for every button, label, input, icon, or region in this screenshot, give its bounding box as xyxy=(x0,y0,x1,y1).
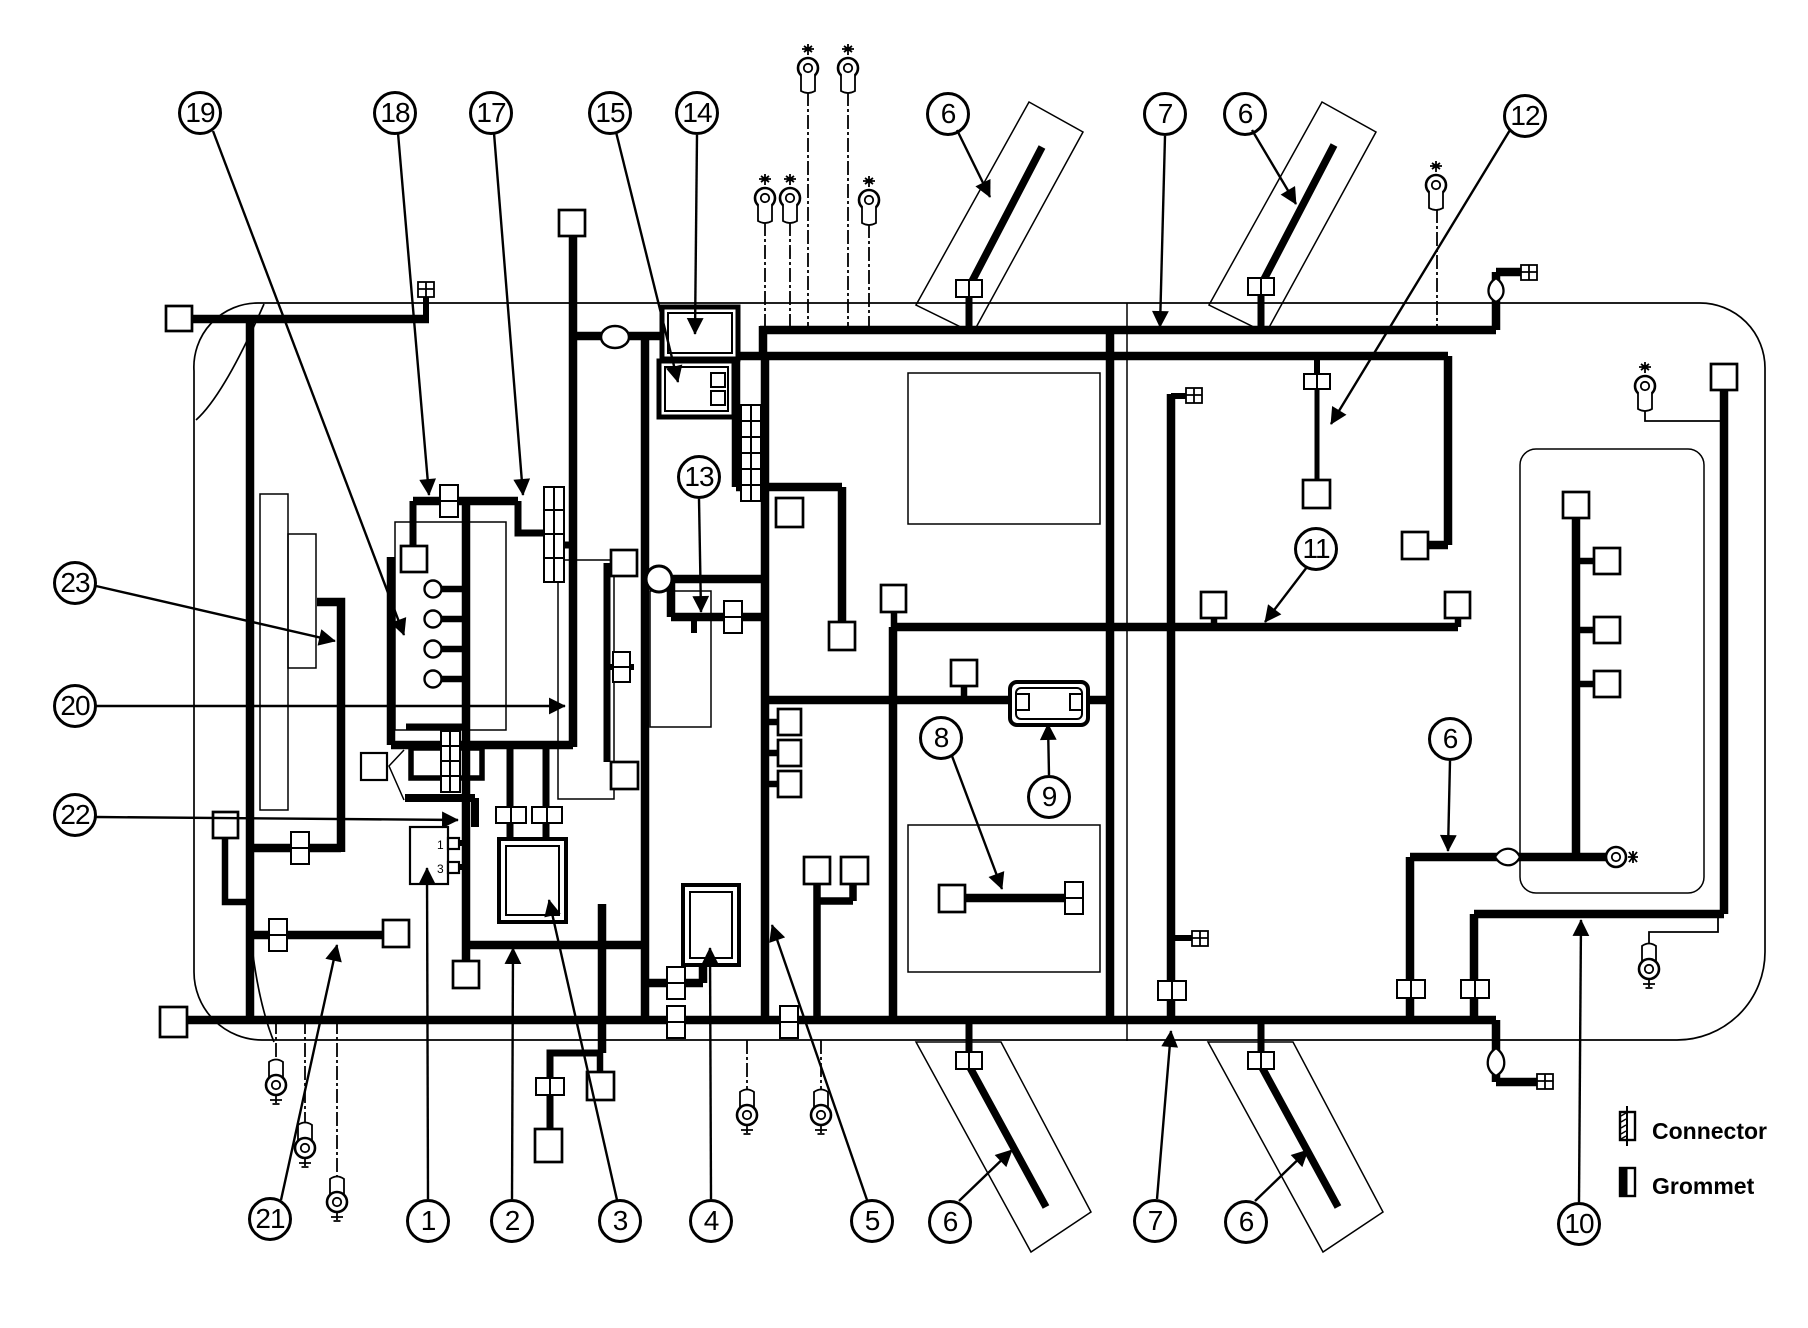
grommet pair on 23 wire xyxy=(291,832,309,848)
svg-text:4: 4 xyxy=(704,1205,719,1236)
callout 9 (15) xyxy=(1029,777,1070,818)
ground terminal G3 xyxy=(327,1177,347,1222)
wire top right exit xyxy=(1496,272,1523,330)
svg-text:19: 19 xyxy=(185,97,215,128)
connector ladder on fuse jog xyxy=(544,487,564,582)
roof strip outline bottom-right (item 6) xyxy=(1208,1042,1383,1252)
connector item 1 lower end xyxy=(453,961,479,988)
ring terminal T4 xyxy=(780,174,800,223)
grommet pair on fuse top row xyxy=(440,485,458,501)
connector on 11 line right xyxy=(1445,592,1470,618)
lead ring terminal F xyxy=(1436,209,1438,330)
wire top-left feed xyxy=(192,315,429,324)
leader 22 xyxy=(96,817,458,820)
grommet pair on floor line B xyxy=(780,1006,798,1022)
wire twin connector drop left xyxy=(813,884,821,1020)
box item 4 xyxy=(683,885,739,965)
connector mid-left upper xyxy=(611,550,637,576)
grommet pair rear drop A xyxy=(1397,980,1411,998)
svg-text:2: 2 xyxy=(505,1205,520,1236)
wire ladder to trunk xyxy=(562,542,573,549)
leader 6a xyxy=(957,130,990,197)
connector fuse block left xyxy=(401,546,427,572)
wire item 12 pigtail xyxy=(1314,356,1320,374)
wire vertical link with two connectors xyxy=(604,563,611,762)
svg-text:3: 3 xyxy=(437,862,444,876)
connector left floor end xyxy=(160,1007,187,1037)
grommet pair strip top-left xyxy=(956,280,969,297)
wire strip stub bottom-right xyxy=(1258,1018,1265,1052)
callout 10 (26) xyxy=(1559,1204,1600,1245)
grommet teardrop top-right xyxy=(1488,278,1503,302)
callout 6 (23) xyxy=(930,1202,971,1243)
wire stub connector to 11 line right xyxy=(1455,616,1462,627)
svg-text:14: 14 xyxy=(682,97,712,128)
wire stub connector to 11 line mid xyxy=(1211,618,1218,627)
wire fuse stubs to bulbs xyxy=(441,589,466,679)
strip conductor bottom-right xyxy=(1259,1062,1338,1207)
connector beside bracket xyxy=(361,753,387,780)
callout 7 (24) xyxy=(1135,1201,1176,1242)
wire fuse block left border xyxy=(387,557,396,745)
callout 20 (10) xyxy=(55,686,96,727)
lead ring terminal E xyxy=(868,224,870,330)
connector on 11 line left xyxy=(881,585,906,612)
leader 9 xyxy=(1048,724,1049,775)
angle bracket marker xyxy=(389,750,404,800)
svg-text:Grommet: Grommet xyxy=(1652,1173,1755,1199)
wire stub trunk to small grommet lower xyxy=(1171,935,1192,941)
grommet pair on 21 wire xyxy=(269,919,287,935)
grommet pair on 8 wire xyxy=(1065,882,1083,898)
callout 13 (12) xyxy=(679,457,720,498)
wire stubs three connectors on center trunk xyxy=(765,722,778,784)
leader 6b xyxy=(1252,130,1296,204)
svg-text:12: 12 xyxy=(1510,100,1540,131)
wire fuse block top row xyxy=(413,497,518,506)
ring terminal T7 xyxy=(1635,362,1655,411)
leader 10 xyxy=(1579,920,1581,1202)
cowl arc top-left xyxy=(196,304,264,420)
right interior rounded panel xyxy=(1520,449,1704,893)
leader 12 xyxy=(1331,130,1510,424)
lead ground left 2 xyxy=(304,1020,306,1125)
leader 19 xyxy=(213,131,404,635)
grommet square top-right exit xyxy=(1521,265,1537,280)
connector ladder on box column xyxy=(741,405,761,501)
roof strip outline top-left (item 6) xyxy=(916,102,1083,333)
lead ground mid 2 xyxy=(820,1040,822,1092)
wire drop x602 xyxy=(598,904,607,1053)
grommet pair on item4 feed xyxy=(667,967,685,983)
ground terminal G2 xyxy=(295,1123,315,1168)
wire jog to lower connector xyxy=(550,1053,602,1131)
lead ring terminal C xyxy=(764,222,766,330)
wire rear long column xyxy=(1720,390,1729,914)
callout 12 (8) xyxy=(1505,96,1546,137)
connector trunk stack 3 xyxy=(778,771,801,797)
leader 15 xyxy=(616,132,678,382)
grommet pair on mid-left stub xyxy=(613,652,630,667)
svg-text:6: 6 xyxy=(1239,1206,1254,1237)
svg-text:3: 3 xyxy=(613,1205,628,1236)
connector on 11 line mid xyxy=(1201,592,1226,618)
grommet pair on item3 drop right xyxy=(532,807,547,823)
svg-text:6: 6 xyxy=(1443,723,1458,754)
callout 6 (7) xyxy=(1225,94,1266,135)
wire left main trunk xyxy=(246,315,255,1020)
callout 11 (13) xyxy=(1296,529,1337,570)
leader 6e xyxy=(1255,1150,1308,1201)
leader 6d xyxy=(959,1150,1012,1201)
grommet oval on cowl harness xyxy=(601,326,629,348)
connector above 9 line xyxy=(951,660,977,686)
wire stub to grommet top-left xyxy=(423,296,429,319)
callout 14 (4) xyxy=(677,93,718,134)
grommet pair rear trunk xyxy=(1158,981,1172,1000)
strip conductor top-left xyxy=(968,147,1042,289)
connector item 21 end xyxy=(383,920,409,947)
cowl arc bottom-left xyxy=(252,947,274,1042)
wire fuse block jog to ladder xyxy=(518,501,548,533)
callout 5 (22) xyxy=(852,1201,893,1242)
lead ring terminal rear top xyxy=(1645,408,1721,421)
wire bottom right exit xyxy=(1496,1020,1537,1082)
wire second top harness row xyxy=(736,352,1448,361)
strip conductor bottom-left xyxy=(967,1062,1046,1207)
wire right quarter drop xyxy=(1406,857,1415,1020)
wire drop to item 3 box right xyxy=(543,745,550,839)
svg-text:1: 1 xyxy=(421,1205,436,1236)
legend connector symbol xyxy=(1620,1106,1635,1146)
wire stub trunk to grommet xyxy=(1171,393,1186,399)
wire item 1 tab stubs xyxy=(451,843,466,867)
connector item 8 left xyxy=(939,885,965,912)
callout 21 (17) xyxy=(250,1199,291,1240)
wire trunk center-right xyxy=(1106,328,1115,1020)
wire stub connector to 11 line left xyxy=(891,612,898,627)
leader 13 xyxy=(699,499,701,612)
svg-text:15: 15 xyxy=(595,97,625,128)
wire fuse block inner column xyxy=(462,501,471,961)
connector tailgate chain 3 xyxy=(1594,671,1620,697)
wire item 13 down link xyxy=(667,583,676,617)
grommet pair item 12 top xyxy=(1304,374,1317,389)
ground terminal G1 xyxy=(266,1060,286,1105)
grommet pair rear drop B xyxy=(1461,980,1475,998)
svg-text:6: 6 xyxy=(941,98,956,129)
wire riser joining top harness rows xyxy=(759,326,768,356)
wire 14-15 box column xyxy=(732,307,741,487)
svg-text:18: 18 xyxy=(380,97,410,128)
ring terminal T6 xyxy=(1426,161,1446,210)
callout 6 (16) xyxy=(1430,719,1471,760)
grommet square bottom-right exit xyxy=(1537,1074,1553,1089)
ring terminal T2 xyxy=(838,44,858,93)
svg-text:7: 7 xyxy=(1158,98,1173,129)
ground terminal G5 xyxy=(811,1090,831,1135)
connector left front feed xyxy=(166,306,192,331)
wire fuse block bottom border xyxy=(391,741,573,750)
grommet square on rear trunk top xyxy=(1186,388,1202,403)
box item 3 xyxy=(499,839,566,922)
connector trunk stack 1 xyxy=(778,709,801,735)
roof strip outline bottom-left (item 6) xyxy=(916,1042,1091,1252)
svg-text:Connector: Connector xyxy=(1652,1118,1767,1144)
connector right rear branch end xyxy=(1402,532,1428,559)
lead ring terminal D xyxy=(789,222,791,330)
box item 14 xyxy=(662,307,738,359)
callout 18 (1) xyxy=(375,93,416,134)
lead ring terminal B xyxy=(847,92,849,330)
wire strip stub bottom-left xyxy=(966,1018,973,1052)
thin rect item 13 xyxy=(650,591,711,727)
connector trunk stack 2 xyxy=(778,740,801,766)
connector below floor right xyxy=(587,1072,614,1100)
leader 8 xyxy=(952,756,1002,889)
lead ground right rear xyxy=(1649,916,1718,944)
svg-text:13: 13 xyxy=(684,461,714,492)
svg-text:11: 11 xyxy=(1302,533,1329,564)
wire item 9 branch xyxy=(765,696,1110,705)
grommet pair on 13 wire xyxy=(724,601,742,617)
fuse bulb 1 xyxy=(425,581,442,598)
ground terminal G4 xyxy=(737,1090,757,1135)
svg-text:6: 6 xyxy=(943,1206,958,1237)
leader 3 xyxy=(549,900,617,1200)
leader 7b xyxy=(1157,1031,1171,1199)
wire branch y945 xyxy=(464,941,643,950)
callout 23 (9) xyxy=(55,563,96,604)
svg-text:22: 22 xyxy=(60,799,90,830)
svg-text:5: 5 xyxy=(865,1205,880,1236)
lead ring terminal A xyxy=(807,92,809,330)
connector tailgate chain top xyxy=(1563,492,1589,518)
grommet pair strip bottom-left xyxy=(956,1052,969,1069)
left tall panel rect A xyxy=(260,494,288,810)
leader 11 xyxy=(1265,567,1307,622)
svg-text:7: 7 xyxy=(1148,1205,1163,1236)
wire item 12 lower pigtail xyxy=(1315,388,1320,482)
wire trunk center-left xyxy=(641,332,650,1022)
callout 3 (20) xyxy=(600,1201,641,1242)
wire main top harness right part xyxy=(760,326,1496,335)
wire twin connector drop right xyxy=(817,884,853,901)
connector ladder below fuse block xyxy=(441,731,460,792)
wire trunk mid-rear xyxy=(889,627,898,1020)
strip conductor top-right xyxy=(1260,145,1334,287)
svg-text:10: 10 xyxy=(1564,1208,1594,1239)
wire item 21 branch xyxy=(250,931,385,940)
wire right quarter branch xyxy=(1410,853,1607,862)
leader 6c xyxy=(1448,761,1450,851)
svg-text:23: 23 xyxy=(60,567,90,598)
tall thin rect around harness (item 17 area) xyxy=(558,560,614,799)
ring terminal T5 xyxy=(859,176,879,225)
left tall panel rect B xyxy=(288,534,316,668)
wire stub connector above 9 line xyxy=(961,686,968,700)
svg-text:9: 9 xyxy=(1042,781,1057,812)
callout 8 (14) xyxy=(921,718,962,759)
wire fuse block left drop xyxy=(410,501,417,548)
grommet teardrop bottom-right xyxy=(1488,1048,1505,1076)
fuse block outline rect (items 17-19) xyxy=(395,522,506,730)
lead ground left 1 xyxy=(275,1020,277,1062)
fuse bulb 2 xyxy=(425,611,442,628)
connector center stack feed xyxy=(776,498,803,527)
wire left connector drop xyxy=(225,838,252,902)
grommet pair strip top-right xyxy=(1248,278,1261,295)
wire trunk right rear xyxy=(1167,394,1176,1020)
wire trunk center xyxy=(761,356,770,1020)
wire fuse inner link xyxy=(406,724,466,731)
callout 6 (25) xyxy=(1226,1202,1267,1243)
leader 5 xyxy=(772,925,867,1200)
svg-text:8: 8 xyxy=(934,722,949,753)
lead ground mid 1 xyxy=(746,1040,748,1092)
fuse bulb 3 xyxy=(425,641,442,658)
callout 19 (0) xyxy=(180,93,221,134)
wire loop below fuse block xyxy=(411,748,482,778)
leader 20 xyxy=(96,705,565,707)
wire strip stub top-right xyxy=(1258,295,1265,332)
callout 15 (3) xyxy=(590,93,631,134)
grommet pair below floor left xyxy=(536,1078,550,1095)
leader 14 xyxy=(695,135,697,334)
svg-text:20: 20 xyxy=(60,690,90,721)
wire rear lower drop xyxy=(1470,914,1479,1020)
svg-text:6: 6 xyxy=(1238,98,1253,129)
wire strip stub top-left xyxy=(966,297,973,332)
leader 2 xyxy=(512,948,513,1199)
wire item 13 bulb line xyxy=(670,575,765,584)
box item 15 xyxy=(659,361,734,417)
leader 18 xyxy=(398,133,429,495)
grommet pair on floor line A xyxy=(667,1006,685,1022)
grommet pair strip bottom-right xyxy=(1248,1052,1261,1069)
thin rect upper middle xyxy=(908,373,1100,524)
wire stub with grommet pair xyxy=(607,664,634,670)
wire drop to item 3 box left xyxy=(507,745,514,839)
lead ground left 3 xyxy=(336,1020,338,1179)
wire main floor harness bottom xyxy=(187,1016,1496,1025)
grommet square top-left xyxy=(418,282,434,297)
thin rect lower middle (item 8 zone) xyxy=(908,825,1100,972)
wire main top harness left part xyxy=(573,332,664,341)
wire box15 tab stubs xyxy=(725,380,736,398)
roof strip outline top-right (item 6) xyxy=(1209,102,1376,333)
wire rear lower branch xyxy=(1474,910,1724,919)
leader 21 xyxy=(281,945,337,1200)
svg-text:21: 21 xyxy=(255,1203,285,1234)
wire tailgate chain stubs xyxy=(1576,561,1594,684)
wire item 8 branch xyxy=(965,894,1078,903)
wire box column to connector run xyxy=(736,487,842,624)
callout 6 (5) xyxy=(928,94,969,135)
connector tailgate chain 1 xyxy=(1594,548,1620,574)
interior divider line xyxy=(1126,303,1128,1041)
connector twin left xyxy=(804,857,830,884)
wire trunk from cowl connector xyxy=(569,236,578,747)
connector mid-left lower xyxy=(611,762,638,789)
ring terminal T1 xyxy=(798,44,818,93)
connector cowl top xyxy=(559,210,585,236)
relay box item 1 xyxy=(410,827,459,884)
leader 1 xyxy=(427,868,428,1199)
callout 1 (18) xyxy=(408,1201,449,1242)
wire item 23 lower horizontal xyxy=(250,844,341,853)
wire item 23 hook vertical xyxy=(317,602,341,852)
leader 4 xyxy=(710,948,711,1199)
callout 7 (6) xyxy=(1145,94,1186,135)
connector below floor left xyxy=(535,1129,562,1162)
body outline xyxy=(194,303,1765,1040)
box item 9 xyxy=(1010,682,1088,725)
wire right rear branch upper xyxy=(1428,356,1448,545)
wire item 4 box feed xyxy=(645,963,703,983)
svg-text:1: 1 xyxy=(437,838,444,852)
wire item 13 stub xyxy=(691,617,697,633)
ring terminal T3 xyxy=(755,174,775,223)
leader 23 xyxy=(96,586,335,641)
grommet pair on item3 drop left xyxy=(496,807,511,823)
bulb circle item 13 xyxy=(646,566,672,592)
connector rear quarter top xyxy=(1711,364,1737,390)
connector tailgate chain 2 xyxy=(1594,617,1620,643)
leader 7a xyxy=(1160,136,1165,327)
connector twin right xyxy=(841,857,868,884)
callout 17 (2) xyxy=(471,93,512,134)
grommet teardrop right quarter xyxy=(1495,849,1520,866)
fuse bulb 4 xyxy=(425,671,442,688)
wire stub to side connector xyxy=(597,1053,604,1072)
ground terminal G6 xyxy=(1639,944,1659,989)
connector drop from box column xyxy=(829,622,855,650)
callout 4 (21) xyxy=(691,1201,732,1242)
connector left mid xyxy=(213,812,238,838)
callout 22 (11) xyxy=(55,795,96,836)
ring terminal right quarter end xyxy=(1606,847,1638,867)
wire fuse lower shelf xyxy=(405,798,475,827)
grommet square on rear trunk mid xyxy=(1192,931,1208,946)
wire item 11 cross harness xyxy=(895,623,1458,632)
callout 2 (19) xyxy=(492,1201,533,1242)
wire tailgate chain column xyxy=(1572,518,1581,857)
leader 17 xyxy=(494,133,523,495)
legend grommet symbol xyxy=(1620,1168,1635,1196)
wire item 13 lower line xyxy=(671,613,763,622)
svg-text:17: 17 xyxy=(476,97,506,128)
connector item 12 end xyxy=(1303,480,1330,508)
